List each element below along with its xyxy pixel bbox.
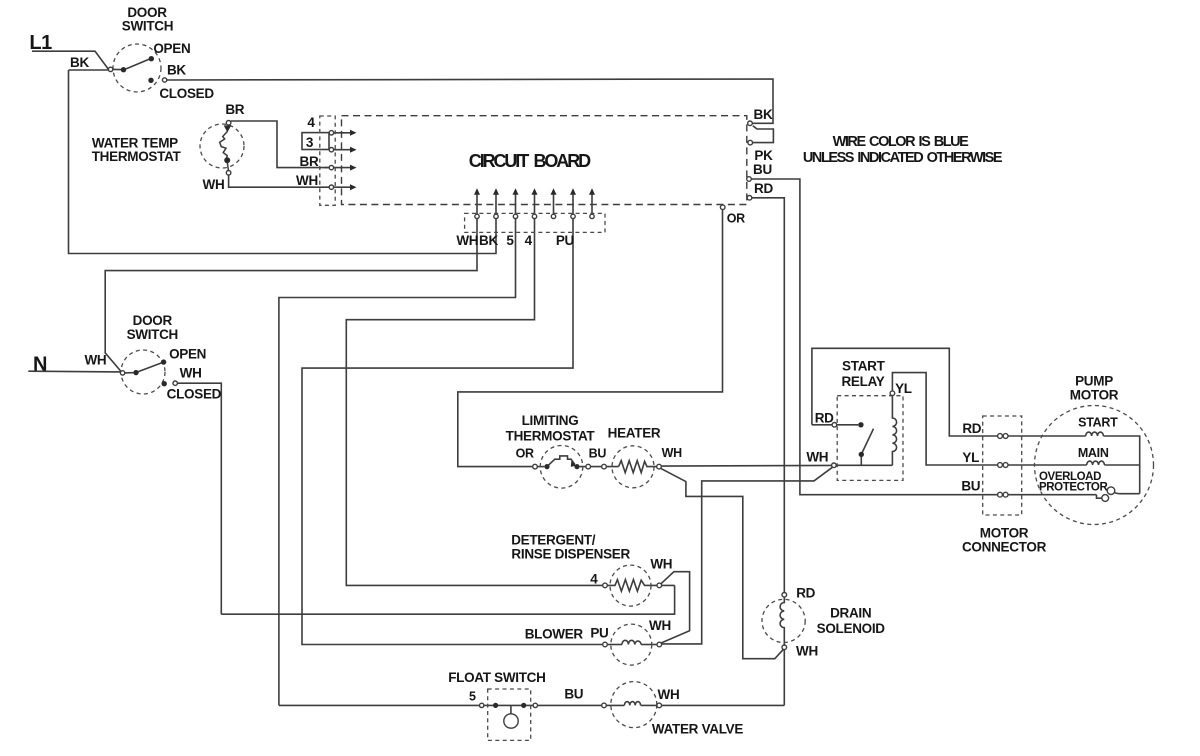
svg-text:BR: BR — [300, 154, 319, 169]
svg-text:WH: WH — [650, 557, 672, 572]
svg-text:MAIN: MAIN — [1078, 446, 1109, 460]
svg-text:4: 4 — [525, 233, 533, 248]
svg-text:THERMOSTAT: THERMOSTAT — [92, 149, 182, 164]
svg-text:START: START — [1078, 416, 1118, 430]
svg-text:BU: BU — [589, 446, 607, 460]
svg-text:WATER VALVE: WATER VALVE — [652, 721, 743, 736]
svg-text:WIRE COLOR IS BLUE: WIRE COLOR IS BLUE — [833, 134, 970, 150]
svg-text:4: 4 — [590, 572, 598, 587]
svg-text:RD: RD — [754, 181, 773, 196]
svg-text:BU: BU — [961, 479, 980, 494]
svg-text:5: 5 — [469, 690, 476, 704]
svg-text:BK: BK — [754, 107, 773, 122]
svg-text:MOTOR: MOTOR — [1070, 388, 1119, 403]
svg-text:WH: WH — [796, 644, 818, 659]
svg-text:WH: WH — [296, 173, 318, 188]
svg-text:UNLESS INDICATED OTHERWISE: UNLESS INDICATED OTHERWISE — [803, 150, 1003, 166]
svg-text:CLOSED: CLOSED — [159, 86, 214, 101]
svg-text:YL: YL — [895, 381, 912, 396]
svg-text:5: 5 — [506, 233, 514, 248]
svg-text:WH: WH — [806, 450, 828, 465]
svg-text:YL: YL — [962, 450, 979, 465]
svg-text:WH: WH — [456, 233, 478, 248]
svg-text:RD: RD — [815, 411, 834, 426]
svg-text:RELAY: RELAY — [841, 374, 884, 389]
svg-text:BLOWER: BLOWER — [525, 627, 584, 642]
svg-text:WH: WH — [180, 366, 202, 381]
svg-text:RD: RD — [796, 585, 815, 600]
svg-text:BK: BK — [70, 55, 89, 70]
svg-text:N: N — [33, 354, 47, 376]
svg-text:PROTECTOR: PROTECTOR — [1039, 482, 1108, 494]
svg-text:PU: PU — [590, 625, 608, 640]
svg-text:OR: OR — [516, 446, 534, 460]
svg-text:RINSE DISPENSER: RINSE DISPENSER — [511, 546, 630, 561]
svg-text:BU: BU — [753, 162, 772, 177]
svg-text:WH: WH — [649, 618, 671, 633]
svg-text:WH: WH — [203, 177, 225, 192]
svg-text:BK: BK — [479, 233, 498, 248]
svg-text:DRAIN: DRAIN — [830, 606, 871, 621]
svg-text:FLOAT SWITCH: FLOAT SWITCH — [448, 670, 545, 685]
svg-text:PK: PK — [754, 148, 773, 163]
svg-text:OR: OR — [727, 212, 745, 226]
svg-text:MOTOR: MOTOR — [980, 525, 1029, 540]
svg-text:PU: PU — [556, 233, 574, 248]
svg-text:L1: L1 — [29, 32, 52, 54]
svg-text:DOOR: DOOR — [133, 313, 173, 328]
svg-text:CLOSED: CLOSED — [167, 387, 222, 402]
svg-text:DETERGENT/: DETERGENT/ — [511, 533, 596, 548]
svg-text:CONNECTOR: CONNECTOR — [962, 540, 1047, 555]
svg-text:SWITCH: SWITCH — [122, 19, 173, 34]
svg-text:SWITCH: SWITCH — [127, 327, 178, 342]
svg-text:WH: WH — [662, 446, 682, 460]
svg-text:BK: BK — [167, 63, 186, 78]
svg-text:LIMITING: LIMITING — [522, 413, 579, 428]
svg-text:RD: RD — [962, 421, 981, 436]
svg-text:BU: BU — [564, 687, 583, 702]
svg-text:OPEN: OPEN — [169, 347, 206, 362]
svg-text:BR: BR — [225, 102, 244, 117]
svg-text:CIRCUIT BOARD: CIRCUIT BOARD — [469, 151, 591, 171]
svg-text:WH: WH — [658, 687, 680, 702]
svg-text:PUMP: PUMP — [1075, 373, 1113, 388]
svg-text:START: START — [842, 359, 886, 374]
svg-text:3: 3 — [306, 135, 314, 150]
svg-text:4: 4 — [307, 115, 315, 130]
svg-text:THERMOSTAT: THERMOSTAT — [506, 428, 596, 443]
svg-text:HEATER: HEATER — [608, 425, 661, 440]
svg-text:SOLENOID: SOLENOID — [817, 621, 886, 636]
svg-text:WH: WH — [84, 353, 106, 368]
svg-text:OPEN: OPEN — [153, 41, 190, 56]
